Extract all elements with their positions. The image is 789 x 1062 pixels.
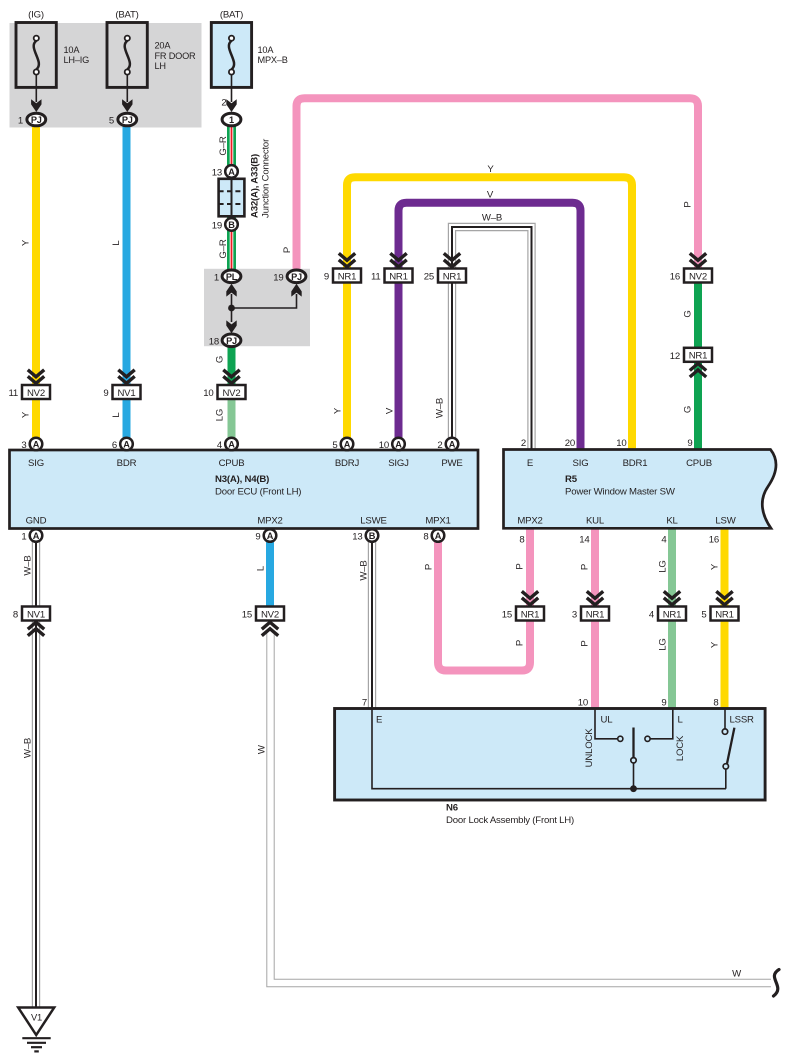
- svg-text:G: G: [683, 406, 694, 413]
- svg-text:PJ: PJ: [226, 336, 237, 346]
- connector NV1 pin 8: [22, 607, 50, 621]
- connector NR1 pin 4: [658, 607, 686, 621]
- svg-text:NV2: NV2: [689, 271, 707, 282]
- svg-text:NV2: NV2: [261, 609, 279, 620]
- svg-text:P: P: [424, 564, 435, 570]
- LSSR switch: [724, 709, 726, 729]
- connector oval PJ pin 5: [118, 113, 137, 126]
- svg-text:Power Window Master SW: Power Window Master SW: [565, 487, 676, 498]
- svg-text:MPX2: MPX2: [257, 516, 282, 527]
- svg-text:16: 16: [670, 272, 680, 283]
- connector oval 1 of MPX-B fuse: [222, 113, 241, 126]
- svg-text:A: A: [344, 439, 351, 449]
- svg-text:P: P: [580, 564, 591, 570]
- svg-text:8: 8: [713, 698, 718, 709]
- gray background box around splice PL/PJ/PJ: [204, 269, 310, 346]
- ECU pin 5 BDRJ: [341, 438, 354, 451]
- gray background box around fuses IG / FR DOOR: [10, 23, 202, 128]
- svg-text:B: B: [369, 531, 376, 541]
- svg-text:LSW: LSW: [715, 516, 736, 527]
- wire Y from ECU pin 5 BDRJ through NR1 9 to R5 pin 10 BDR1: [347, 177, 632, 450]
- wire LG from connector NV2 10 to ECU pin 4 CPUB: [228, 398, 236, 443]
- fuse 10A MPX-B: [211, 23, 251, 88]
- svg-text:(BAT): (BAT): [115, 10, 138, 21]
- svg-text:NR1: NR1: [389, 271, 408, 282]
- lock switch lever: [632, 728, 634, 758]
- wire W-B from ECU pin 13 LSWE to N6 pin 7 E: [368, 540, 376, 709]
- svg-text:LG: LG: [215, 409, 226, 421]
- svg-text:15: 15: [502, 610, 512, 621]
- svg-text:6: 6: [112, 440, 117, 451]
- svg-text:16: 16: [709, 535, 719, 546]
- svg-text:KUL: KUL: [586, 516, 605, 527]
- svg-text:11: 11: [8, 388, 18, 399]
- wire W-B from ECU pin 2 PWE through NR1 25 to R5 pin 2 E: [452, 227, 532, 450]
- svg-text:BDR: BDR: [117, 458, 137, 469]
- svg-text:G–R: G–R: [218, 239, 229, 258]
- wire P from ECU pin 8 MPX1 through NR1 15 to R5 pin 8 MPX2: [438, 528, 530, 671]
- chevron into connector NR1 3: [587, 591, 603, 598]
- chevron into connector NR1 25: [444, 253, 460, 260]
- svg-text:W–B: W–B: [23, 555, 34, 575]
- junction connector pin circle A pin 13: [225, 165, 238, 178]
- svg-text:W: W: [257, 744, 268, 754]
- svg-text:9: 9: [103, 388, 108, 399]
- svg-text:Door Lock Assembly (Front LH): Door Lock Assembly (Front LH): [446, 815, 574, 826]
- svg-text:W–B: W–B: [482, 213, 502, 224]
- svg-text:UL: UL: [601, 715, 614, 726]
- chevron out of connector NV1 8: [28, 622, 44, 629]
- ECU pin 13 LSWE: [366, 529, 379, 542]
- svg-text:PJ: PJ: [122, 115, 133, 125]
- svg-text:4: 4: [217, 440, 223, 451]
- ECU pin 9 MPX2: [264, 529, 277, 542]
- ECU pin 6 BDR: [120, 438, 133, 451]
- fuse 20A FR DOOR LH: [107, 23, 147, 88]
- svg-text:R5: R5: [565, 474, 578, 485]
- ECU pin 2 PWE: [446, 438, 459, 451]
- connector NV2 pin 15: [256, 607, 284, 621]
- N6 block Door Lock Assembly Front LH: [335, 709, 765, 801]
- svg-text:W–B: W–B: [359, 560, 370, 580]
- svg-text:MPX2: MPX2: [517, 516, 542, 527]
- svg-text:LH: LH: [155, 61, 166, 71]
- lead and arrow into connector 1 of MPX-B fuse: [231, 75, 233, 102]
- svg-text:G: G: [215, 356, 226, 363]
- chevron into connector NV2 16: [690, 253, 706, 260]
- svg-text:L: L: [678, 715, 684, 726]
- svg-text:A32(A), A33(B): A32(A), A33(B): [250, 154, 261, 218]
- ECU block N3(A) N4(B) Door ECU Front LH: [10, 450, 479, 529]
- connector NR1 pin 12: [684, 348, 712, 362]
- chevron out of connector NV2 15: [262, 622, 278, 629]
- svg-text:V: V: [487, 190, 494, 201]
- svg-text:10: 10: [379, 440, 389, 451]
- svg-text:NR1: NR1: [689, 351, 708, 362]
- UNLOCK contact: [618, 736, 623, 741]
- svg-text:2: 2: [437, 440, 442, 451]
- svg-text:15: 15: [242, 610, 252, 621]
- svg-text:LG: LG: [658, 560, 669, 572]
- svg-text:10: 10: [616, 438, 626, 449]
- svg-text:14: 14: [579, 535, 590, 546]
- svg-text:12: 12: [670, 351, 680, 362]
- svg-text:1: 1: [229, 115, 234, 125]
- svg-text:PJ: PJ: [31, 115, 42, 125]
- svg-text:N3(A), N4(B): N3(A), N4(B): [215, 474, 269, 485]
- chevron out of connector NR1 12: [690, 364, 706, 371]
- svg-text:4: 4: [649, 610, 655, 621]
- svg-text:PL: PL: [226, 272, 238, 282]
- svg-text:L: L: [111, 240, 122, 246]
- junction connector pin circle B pin 19: [225, 218, 238, 231]
- ECU pin 8 MPX1: [432, 529, 445, 542]
- svg-text:8: 8: [519, 535, 524, 546]
- connector NR1 pin 3: [581, 607, 609, 621]
- svg-text:PJ: PJ: [291, 272, 302, 282]
- svg-text:LG: LG: [658, 638, 669, 650]
- wire L from connector PJ 5 to ECU pin 6 BDR: [123, 126, 131, 386]
- svg-text:L: L: [256, 565, 267, 571]
- svg-text:W: W: [732, 969, 742, 980]
- svg-text:MPX1: MPX1: [425, 516, 450, 527]
- splice wiring with junction dot: [231, 294, 233, 322]
- svg-text:3: 3: [572, 610, 577, 621]
- ground V1: [18, 1008, 54, 1036]
- svg-text:1: 1: [214, 273, 219, 284]
- svg-text:MPX–B: MPX–B: [258, 55, 288, 65]
- svg-text:A: A: [267, 531, 274, 541]
- R5 block Power Window Master SW: [504, 450, 776, 529]
- ECU pin 10 SIGJ: [392, 438, 405, 451]
- svg-text:P: P: [515, 563, 526, 569]
- svg-text:UNLOCK: UNLOCK: [584, 728, 595, 768]
- splice oval PJ pin 18: [222, 334, 241, 347]
- svg-text:W–B: W–B: [435, 398, 446, 418]
- svg-text:8: 8: [423, 532, 428, 543]
- svg-text:4: 4: [661, 535, 667, 546]
- svg-text:Y: Y: [710, 641, 721, 648]
- svg-text:LH–IG: LH–IG: [64, 55, 90, 65]
- svg-text:7: 7: [362, 698, 367, 709]
- connector NV2 pin 16: [684, 269, 712, 283]
- svg-text:25: 25: [424, 272, 434, 283]
- svg-text:L: L: [111, 412, 122, 418]
- connector NR1 pin 5: [711, 607, 739, 621]
- wire G from connector NV2 16 through NR1 12 to R5 pin 9 CPUB: [694, 282, 702, 349]
- svg-text:NV1: NV1: [117, 388, 135, 399]
- svg-text:Junction Connector: Junction Connector: [261, 138, 272, 218]
- svg-text:NV2: NV2: [27, 388, 45, 399]
- wire G-R from connector 1 through junction connector to PL 1: [227, 126, 236, 270]
- svg-text:SIG: SIG: [573, 458, 589, 469]
- svg-text:FR DOOR: FR DOOR: [155, 51, 197, 61]
- svg-text:9: 9: [661, 698, 666, 709]
- wire LG from R5 pin 4 KL through NR1 4 to N6 pin 9 L: [668, 528, 676, 709]
- svg-text:9: 9: [324, 272, 329, 283]
- svg-text:13: 13: [352, 532, 362, 543]
- svg-text:Y: Y: [21, 239, 32, 246]
- ECU pin 3 SIG: [30, 438, 43, 451]
- svg-text:10A: 10A: [64, 45, 81, 55]
- svg-text:NR1: NR1: [715, 609, 734, 620]
- svg-text:10: 10: [578, 698, 588, 709]
- connector NR1 pin 25: [438, 269, 466, 283]
- connector NR1 pin 11: [385, 269, 413, 283]
- svg-text:BDR1: BDR1: [623, 458, 648, 469]
- chevron into connector NR1 5: [716, 591, 732, 598]
- svg-text:1: 1: [18, 116, 23, 127]
- svg-text:13: 13: [212, 168, 222, 179]
- svg-text:11: 11: [371, 272, 381, 283]
- wire L from ECU pin 9 MPX2 to connector NV2 15: [266, 540, 274, 607]
- svg-text:A: A: [228, 167, 235, 177]
- fuse 10A LH-IG: [16, 23, 56, 88]
- svg-text:A: A: [449, 439, 456, 449]
- svg-text:8: 8: [13, 610, 18, 621]
- svg-text:P: P: [580, 640, 591, 646]
- svg-text:10: 10: [203, 388, 213, 399]
- splice oval PJ pin 19: [287, 270, 306, 283]
- chevron into connector NR1 11: [390, 253, 406, 260]
- svg-text:Y: Y: [21, 411, 32, 418]
- svg-text:LOCK: LOCK: [675, 735, 686, 761]
- svg-text:5: 5: [109, 116, 114, 127]
- svg-text:A: A: [435, 531, 442, 541]
- junction connector A32(A) A33(B) block: [219, 179, 245, 217]
- LOCK contact: [645, 736, 650, 741]
- svg-text:18: 18: [209, 337, 219, 348]
- svg-text:NV1: NV1: [27, 609, 45, 620]
- svg-text:20: 20: [565, 438, 575, 449]
- svg-text:NR1: NR1: [338, 271, 357, 282]
- svg-text:5: 5: [701, 610, 706, 621]
- svg-text:5: 5: [332, 440, 337, 451]
- svg-text:20A: 20A: [155, 41, 172, 51]
- svg-text:1: 1: [21, 532, 26, 543]
- svg-text:E: E: [527, 458, 533, 469]
- wire W from connector NV2 15 to break at bottom right: [271, 632, 772, 983]
- wire Y from R5 pin 16 LSW through NR1 5 to N6 pin 8 LSSR: [721, 528, 729, 709]
- svg-text:A: A: [33, 439, 40, 449]
- svg-text:W–B: W–B: [23, 738, 34, 758]
- svg-text:2: 2: [221, 98, 226, 109]
- svg-text:G–R: G–R: [218, 136, 229, 155]
- svg-text:G: G: [683, 310, 694, 317]
- svg-text:BDRJ: BDRJ: [335, 458, 360, 469]
- connector NR1 pin 15: [516, 607, 544, 621]
- svg-text:10A: 10A: [258, 45, 275, 55]
- svg-text:N6: N6: [446, 803, 458, 814]
- ECU pin 4 CPUB: [225, 438, 238, 451]
- junction dot: [228, 305, 235, 312]
- chevron into connector NV2 10: [223, 370, 239, 377]
- N6 internal wire from E pin along bottom: [372, 709, 726, 789]
- svg-text:V1: V1: [31, 1012, 42, 1023]
- svg-text:SIGJ: SIGJ: [388, 458, 409, 469]
- svg-text:19: 19: [273, 273, 283, 284]
- svg-text:E: E: [376, 715, 382, 726]
- svg-text:KL: KL: [666, 516, 678, 527]
- svg-text:A: A: [228, 439, 235, 449]
- svg-text:Y: Y: [710, 563, 721, 570]
- lead and arrow into connector PJ 5: [126, 75, 128, 102]
- svg-text:9: 9: [687, 438, 692, 449]
- wire Y from connector PJ 1 to ECU pin 3 SIG: [32, 126, 40, 386]
- chevron into connector NV2 11: [28, 370, 44, 377]
- svg-text:(IG): (IG): [28, 10, 44, 21]
- svg-text:3: 3: [21, 440, 26, 451]
- wire P from splice PJ 19 up across to connector NV2 16: [297, 98, 699, 270]
- svg-text:LSWE: LSWE: [360, 516, 386, 527]
- chevron into connector NR1 15: [522, 591, 538, 598]
- svg-text:Door ECU (Front LH): Door ECU (Front LH): [215, 487, 301, 498]
- lead and arrow into connector PJ 1: [35, 75, 37, 102]
- svg-text:Y: Y: [487, 164, 494, 175]
- svg-text:A: A: [123, 439, 130, 449]
- splice oval PL pin 1: [222, 270, 241, 283]
- svg-text:P: P: [515, 640, 526, 646]
- connector NR1 pin 9: [333, 269, 361, 283]
- chevron into connector NR1 9: [339, 253, 355, 260]
- svg-text:19: 19: [212, 221, 222, 232]
- svg-text:PWE: PWE: [441, 458, 462, 469]
- svg-text:CPUB: CPUB: [686, 458, 712, 469]
- svg-text:LSSR: LSSR: [730, 715, 755, 726]
- svg-text:V: V: [385, 407, 396, 414]
- wire G from splice PJ 18 to connector NV2 10: [228, 346, 236, 386]
- wire P from R5 pin 14 KUL through NR1 3 to N6 pin 10 UL: [591, 528, 599, 709]
- svg-text:A: A: [33, 531, 40, 541]
- svg-text:NR1: NR1: [443, 271, 462, 282]
- svg-text:P: P: [683, 201, 694, 207]
- wire V from ECU pin 10 SIGJ through NR1 11 to R5 pin 20 SIG: [399, 203, 581, 450]
- svg-text:A: A: [395, 439, 402, 449]
- wire W-B from ECU pin 1 GND to ground V1: [32, 540, 40, 1008]
- svg-text:SIG: SIG: [28, 458, 44, 469]
- svg-text:GND: GND: [26, 516, 47, 527]
- svg-text:B: B: [228, 220, 235, 230]
- connector oval PJ pin 1: [27, 113, 46, 126]
- chevron into connector NV1 9: [118, 370, 134, 377]
- junction dot on N6 bottom wire: [630, 785, 637, 792]
- svg-text:CPUB: CPUB: [219, 458, 245, 469]
- svg-text:9: 9: [255, 532, 260, 543]
- connector NV2 pin 10: [218, 385, 246, 399]
- connector NV2 pin 11: [22, 385, 50, 399]
- ECU pin 1 GND: [30, 529, 43, 542]
- svg-text:NR1: NR1: [586, 609, 605, 620]
- N6 internal wire UL branch: [595, 709, 617, 739]
- svg-text:P: P: [282, 247, 293, 253]
- svg-text:NR1: NR1: [663, 609, 682, 620]
- chevron into connector NR1 4: [664, 591, 680, 598]
- svg-text:NV2: NV2: [222, 388, 240, 399]
- connector NV1 pin 9: [113, 385, 141, 399]
- svg-text:Y: Y: [333, 407, 344, 414]
- svg-text:2: 2: [521, 438, 526, 449]
- svg-text:NR1: NR1: [521, 609, 540, 620]
- svg-text:(BAT): (BAT): [220, 10, 243, 21]
- wire break symbol at right edge: [774, 970, 780, 997]
